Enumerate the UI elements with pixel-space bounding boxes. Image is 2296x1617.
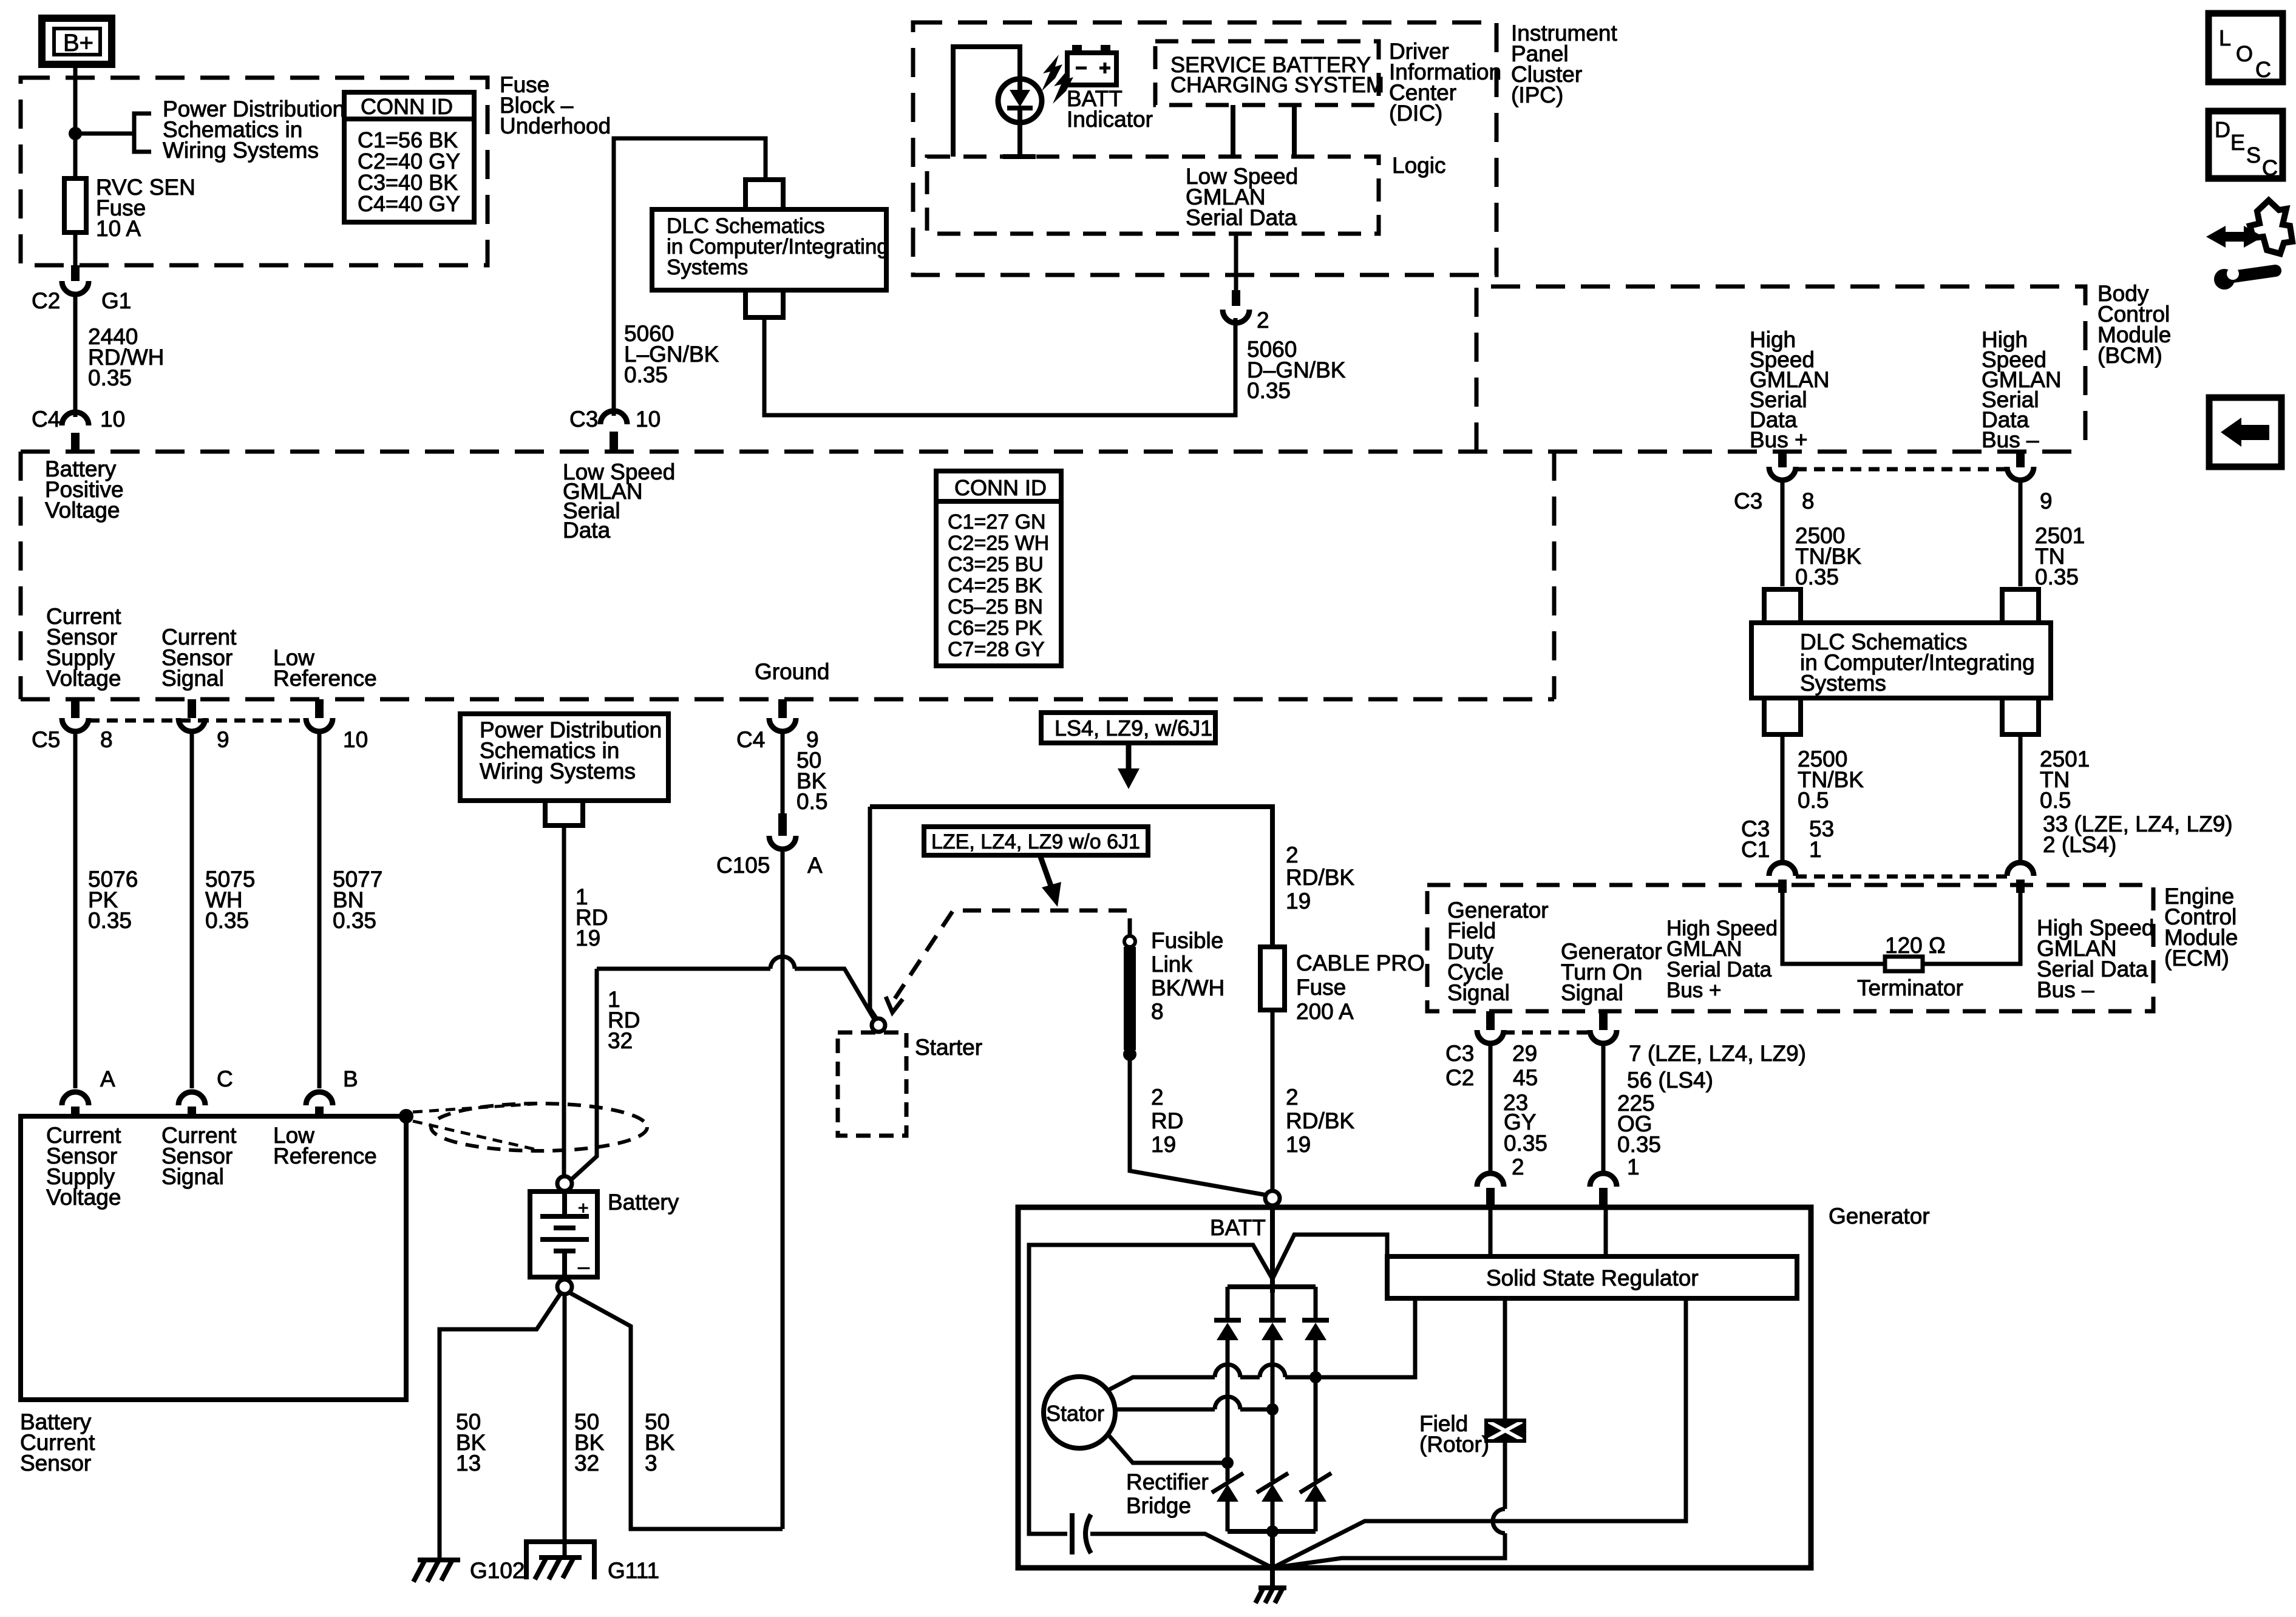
bracket DLC bottom <box>746 290 783 317</box>
car with wrench icon <box>2206 200 2292 290</box>
LED circle <box>998 79 1042 123</box>
wire rail to case apex <box>1270 1531 1275 1568</box>
svg-text:C4: C4 <box>736 727 765 752</box>
pin stub C105 <box>778 813 787 836</box>
svg-text:C2: C2 <box>32 288 60 313</box>
wire 2501 TN 0.5 <box>2019 734 2023 863</box>
wire fuse to C2 <box>73 232 78 265</box>
conn id table harness <box>936 471 1061 666</box>
svg-text:(DIC): (DIC) <box>1389 101 1442 126</box>
bracket DLC top <box>746 180 783 208</box>
wire regulator ground return <box>1272 1298 1686 1568</box>
svg-text:45: 45 <box>1513 1065 1538 1090</box>
svg-text:C3: C3 <box>569 407 598 432</box>
dashed ellipse battery cable bundle <box>431 1103 647 1151</box>
svg-text:LS4, LZ9, w/6J1: LS4, LZ9, w/6J1 <box>1055 716 1212 741</box>
LOC icon box <box>2209 13 2283 82</box>
logic dashed box <box>927 157 1379 234</box>
svg-text:C: C <box>217 1066 233 1091</box>
svg-text:Underhood: Underhood <box>500 114 611 138</box>
wire battery negative to G111 <box>563 1294 567 1558</box>
svg-text:8: 8 <box>100 727 113 752</box>
rectifier top rail <box>1228 1284 1316 1289</box>
wire 1 RD 32 starter feed <box>569 969 597 1181</box>
field rotor symbol <box>1486 1420 1524 1441</box>
junction node phase3 column1 <box>1221 1457 1234 1469</box>
IPC dashed box <box>913 22 1496 275</box>
battery cell plates <box>540 1192 589 1277</box>
LED foot bar <box>1003 154 1036 159</box>
rectifier column 1 upper diode <box>1214 1287 1241 1481</box>
pin stub below C3 <box>610 432 618 450</box>
long dashed boundary line fuse block to BCM <box>21 450 2085 454</box>
pin stub above connector 2 <box>1232 290 1240 306</box>
stator phase wire 1 with hops <box>1107 1298 1415 1391</box>
svg-text:C2=25 WH: C2=25 WH <box>948 532 1049 555</box>
pin stub C5 supply <box>71 699 80 718</box>
svg-text:10: 10 <box>100 407 125 432</box>
svg-text:L: L <box>2219 25 2231 50</box>
wire capacitor to case apex <box>1090 1534 1272 1568</box>
svg-text:C3: C3 <box>1734 489 1762 514</box>
DLC schematics box 1 <box>652 209 886 290</box>
node B+ battery positive terminal <box>42 18 112 64</box>
svg-text:Link: Link <box>1151 952 1192 977</box>
svg-text:7 (LZE, LZ4, LZ9): 7 (LZE, LZ4, LZ9) <box>1629 1041 1806 1066</box>
svg-text:0.35: 0.35 <box>333 908 376 933</box>
connector ECM bus minus <box>2007 863 2034 876</box>
svg-text:C: C <box>2255 57 2271 82</box>
svg-text:0.5: 0.5 <box>2040 788 2071 813</box>
svg-text:56 (LS4): 56 (LS4) <box>1627 1068 1713 1093</box>
svg-text:C5: C5 <box>32 727 60 752</box>
pin stub C2 <box>71 265 80 281</box>
svg-text:(BCM): (BCM) <box>2097 343 2162 368</box>
svg-text:10: 10 <box>343 727 368 752</box>
connector pin B <box>306 1092 333 1105</box>
pin stub ECM turn on <box>1599 1011 1608 1030</box>
svg-text:2: 2 <box>1512 1154 1524 1179</box>
open arrowhead on dashed routing <box>886 997 903 1012</box>
svg-text:19: 19 <box>1286 1132 1311 1157</box>
wire 225 OG 0.35 <box>1601 1043 1606 1172</box>
svg-text:Terminator: Terminator <box>1857 975 1963 1000</box>
svg-text:0.35: 0.35 <box>88 908 132 933</box>
fuse CABLE PRO 200A <box>1260 947 1285 1010</box>
svg-text:Stator: Stator <box>1046 1401 1104 1426</box>
svg-text:1: 1 <box>1809 837 1822 862</box>
svg-text:1: 1 <box>1627 1154 1640 1179</box>
conn id table fuse block <box>344 92 474 222</box>
svg-text:Ground: Ground <box>755 659 829 684</box>
wire battery negative to generator ground <box>569 1292 783 1529</box>
svg-text:0.5: 0.5 <box>796 789 827 814</box>
rectifier bottom rail <box>1228 1529 1316 1534</box>
svg-text:A: A <box>807 853 823 878</box>
bracket power distribution bottom <box>545 801 583 825</box>
wire DIC to logic left <box>1231 105 1235 157</box>
svg-text:0.35: 0.35 <box>88 365 132 390</box>
svg-text:Voltage: Voltage <box>46 666 121 691</box>
dashed alternate routing LZE <box>895 910 1130 998</box>
wire BATT indicator loop <box>953 47 1020 157</box>
LS4 callout box <box>1041 713 1215 743</box>
svg-text:32: 32 <box>574 1451 599 1476</box>
svg-text:Bus –: Bus – <box>2037 977 2094 1002</box>
connector C4 pin 9 ground <box>769 718 796 731</box>
svg-text:C105: C105 <box>716 853 770 878</box>
wire fuse to generator BATT <box>1271 1010 1275 1191</box>
wire 2440 RD/WH 0.35 <box>73 294 78 417</box>
svg-text:C2: C2 <box>1445 1065 1474 1090</box>
dotted connector tie line 8 to 9 <box>1796 467 2007 472</box>
LS4 callout arrow <box>1126 743 1132 772</box>
connector ECM bus plus <box>1769 863 1796 876</box>
svg-text:Rectifier: Rectifier <box>1126 1470 1209 1494</box>
wire logic box to connector 2 <box>1234 234 1238 290</box>
power distribution box <box>460 714 668 801</box>
capacitor curved plate <box>1085 1514 1091 1553</box>
svg-text:Generator: Generator <box>1829 1204 1930 1229</box>
wire 50 BK 0.5 <box>781 731 785 813</box>
ground G111 with bracket <box>526 1542 594 1579</box>
svg-text:Solid State Regulator: Solid State Regulator <box>1486 1266 1699 1290</box>
wire terminator to bus minus <box>1923 893 2020 964</box>
svg-text:B: B <box>343 1066 358 1091</box>
svg-text:Wiring Systems: Wiring Systems <box>480 759 636 784</box>
svg-text:Reference: Reference <box>273 666 377 691</box>
connector pin 10 low reference <box>306 718 333 731</box>
wire 5060 L-GN/BK riser <box>614 138 766 416</box>
wire regulator sense right <box>1272 1235 1387 1279</box>
back arrow icon box <box>2209 398 2281 467</box>
rectifier column 2 lower diode <box>1257 1473 1288 1531</box>
svg-text:0.35: 0.35 <box>2035 564 2079 589</box>
DIC dashed box <box>1155 41 1379 105</box>
dotted connector tie line ECM bus <box>1796 875 2007 879</box>
battery symbol box <box>530 1192 597 1277</box>
svg-text:CABLE PRO: CABLE PRO <box>1296 951 1425 975</box>
LZE callout arrow <box>1040 855 1051 887</box>
LED diode triangle <box>1010 90 1030 107</box>
svg-text:0.35: 0.35 <box>1504 1131 1547 1156</box>
svg-text:G102: G102 <box>470 1558 525 1583</box>
capacitor flat plate <box>1070 1513 1075 1554</box>
connector C3 C2 duty cycle <box>1477 1030 1504 1043</box>
wire 2 RD 19 <box>1130 1054 1267 1195</box>
svg-text:RD/BK: RD/BK <box>1286 865 1354 890</box>
pin stub low ref <box>315 699 324 718</box>
svg-text:0.35: 0.35 <box>1795 564 1839 589</box>
stator circle <box>1044 1377 1115 1448</box>
LZE callout box <box>924 827 1148 855</box>
wire LED cathode to logic <box>1017 108 1022 157</box>
LED diode bar <box>1007 106 1033 110</box>
svg-text:C4: C4 <box>32 407 60 432</box>
svg-text:CONN ID: CONN ID <box>361 94 453 119</box>
svg-text:C7=28 GY: C7=28 GY <box>948 638 1045 661</box>
svg-text:13: 13 <box>456 1451 481 1476</box>
svg-text:Serial Data: Serial Data <box>1186 205 1297 230</box>
svg-text:2: 2 <box>1257 308 1269 333</box>
svg-text:Voltage: Voltage <box>46 1185 121 1210</box>
svg-text:Signal: Signal <box>1561 980 1623 1005</box>
svg-text:–: – <box>578 1255 589 1278</box>
DLC schematics box 2 <box>1751 623 2051 698</box>
junction node on B+ feed <box>69 127 82 140</box>
wire 23 GY 0.35 <box>1489 1043 1493 1172</box>
stator phase wire 3 <box>1107 1434 1228 1463</box>
svg-text:Systems: Systems <box>1800 671 1886 696</box>
connector 2 IPC serial data <box>1223 310 1249 323</box>
svg-text:Battery: Battery <box>608 1190 679 1215</box>
battery current sensor box <box>21 1116 406 1400</box>
rectifier column 2 upper diode <box>1259 1287 1286 1481</box>
svg-text:2 (LS4): 2 (LS4) <box>2043 832 2116 857</box>
starter feed horizontal with hop over ground wire <box>597 957 874 1019</box>
svg-text:Signal: Signal <box>161 666 224 691</box>
svg-text:Signal: Signal <box>1447 980 1510 1005</box>
svg-text:Wiring Systems: Wiring Systems <box>163 138 319 163</box>
svg-text:19: 19 <box>576 926 600 951</box>
svg-text:29: 29 <box>1512 1041 1537 1066</box>
svg-text:+: + <box>578 1198 589 1218</box>
svg-text:0.35: 0.35 <box>1247 378 1291 403</box>
svg-text:Data: Data <box>563 518 611 543</box>
wire ground drop to battery junction <box>781 849 785 1529</box>
svg-text:19: 19 <box>1286 889 1311 914</box>
ECM dashed box <box>1427 885 2153 1011</box>
svg-text:10: 10 <box>636 407 661 432</box>
wire regulator to field <box>1503 1298 1507 1420</box>
svg-text:Reference: Reference <box>273 1144 377 1168</box>
svg-text:2: 2 <box>1286 842 1299 867</box>
svg-text:C3=25 BU: C3=25 BU <box>948 553 1044 576</box>
pin stub ECM duty cycle <box>1486 1011 1495 1030</box>
wire 2500 TN/BK 0.5 <box>1781 734 1785 863</box>
svg-text:0.35: 0.35 <box>624 362 668 387</box>
starter terminal circle <box>872 1019 885 1032</box>
middle harness dashed box bottom edge <box>21 697 1554 702</box>
BCM dashed box <box>1476 286 2085 452</box>
svg-text:0.35: 0.35 <box>205 908 249 933</box>
svg-text:CONN ID: CONN ID <box>954 475 1047 500</box>
dotted callout line upper <box>413 1103 542 1112</box>
svg-text:2: 2 <box>1151 1085 1164 1110</box>
wire to power distribution callout <box>75 132 133 136</box>
svg-text:E: E <box>2230 130 2245 155</box>
wire DIC to logic right <box>1292 105 1297 157</box>
svg-text:C5–25 BN: C5–25 BN <box>948 595 1043 619</box>
wire from B+ into fuse block <box>73 64 78 178</box>
bracket DLC2 bottom right <box>2002 698 2039 734</box>
connector C3 pin 10 low speed gmlan <box>600 411 627 424</box>
wire bus plus to terminator <box>1782 893 1885 964</box>
LS4 battery feed line <box>870 807 1272 947</box>
fuse RVC SEN 10A <box>64 178 86 232</box>
wire 5075 WH 0.35 <box>190 731 194 1088</box>
fuse block underhood dashed box <box>21 78 487 265</box>
svg-text:C3: C3 <box>1445 1041 1474 1066</box>
svg-text:2: 2 <box>1286 1085 1299 1110</box>
connector pin 9 <box>2007 467 2034 480</box>
junction node bottom rail <box>1266 1525 1279 1537</box>
DESC icon box <box>2209 111 2283 180</box>
wire battery negative to G102 <box>440 1293 561 1559</box>
junction node sensor corner <box>399 1109 413 1124</box>
svg-text:C4=40 GY: C4=40 GY <box>358 191 460 216</box>
connector C105 pin A <box>769 836 796 849</box>
wire negative loop left <box>1029 1245 1272 1534</box>
dotted connector tie line C5 row <box>89 719 306 723</box>
wire turn on into regulator <box>1604 1207 1608 1256</box>
wire 2500 TN/BK 0.35 <box>1781 480 1785 586</box>
svg-text:120 Ω: 120 Ω <box>1885 933 1946 958</box>
connector generator terminal 2 <box>1477 1173 1504 1187</box>
svg-text:10 A: 10 A <box>96 216 141 241</box>
svg-text:D: D <box>2215 117 2230 142</box>
junction node phase1 column3 <box>1309 1371 1322 1383</box>
stator phase wire 2 with hop <box>1115 1397 1272 1409</box>
connector generator terminal 1 <box>1590 1173 1617 1187</box>
pin stub below C4 <box>71 433 80 451</box>
svg-text:CHARGING SYSTEM: CHARGING SYSTEM <box>1170 72 1384 97</box>
battery indicator icon <box>1067 45 1116 85</box>
generator box <box>1018 1207 1811 1568</box>
pin stub BCM bus plus <box>1778 452 1787 467</box>
LED flash arrows <box>1042 55 1073 104</box>
generator internal ground <box>1255 1568 1286 1603</box>
connector C5 pin 8 <box>62 718 89 731</box>
wire BATT into rectifier <box>1270 1205 1275 1293</box>
dotted connector tie line ECM bottom <box>1504 1031 1590 1035</box>
starter dashed box <box>838 1032 906 1136</box>
junction node fusible link <box>1123 1048 1136 1061</box>
svg-text:C4=25 BK: C4=25 BK <box>948 574 1042 597</box>
svg-text:32: 32 <box>608 1028 633 1053</box>
svg-text:Indicator: Indicator <box>1067 107 1153 132</box>
svg-text:8: 8 <box>1151 999 1164 1024</box>
wire duty cycle into regulator <box>1489 1207 1493 1256</box>
svg-text:Fuse: Fuse <box>1296 975 1346 1000</box>
svg-text:8: 8 <box>1802 489 1815 514</box>
wire 5076 PK 0.35 <box>73 731 78 1088</box>
svg-text:0.35: 0.35 <box>1617 1132 1661 1157</box>
svg-text:G1: G1 <box>101 288 131 313</box>
wire 1 RD 19 battery feed <box>562 825 566 1178</box>
bracket DLC2 bottom left <box>1764 698 1801 734</box>
dotted callout line lower <box>413 1121 542 1151</box>
svg-text:19: 19 <box>1151 1132 1176 1157</box>
pin stub ground harness <box>778 699 787 718</box>
svg-text:Logic: Logic <box>1392 153 1445 178</box>
junction node phase2 column2 <box>1266 1403 1279 1415</box>
svg-text:9: 9 <box>2040 489 2053 514</box>
svg-text:(Rotor): (Rotor) <box>1419 1432 1489 1457</box>
bracket DLC2 top left <box>1764 589 1801 623</box>
svg-text:Starter: Starter <box>915 1035 982 1060</box>
generator BATT terminal circle <box>1265 1191 1280 1205</box>
middle harness dashed box left edge <box>19 452 23 699</box>
connector C4 pin 10 <box>62 412 89 425</box>
svg-text:BATT: BATT <box>1210 1215 1266 1240</box>
svg-text:(IPC): (IPC) <box>1511 83 1563 107</box>
svg-text:Bus +: Bus + <box>1750 427 1808 452</box>
svg-text:200 A: 200 A <box>1296 999 1354 1024</box>
rectifier column 3 lower diode <box>1300 1473 1331 1531</box>
connector turn on signal <box>1590 1030 1617 1043</box>
svg-text:Bridge: Bridge <box>1126 1493 1191 1518</box>
svg-text:Voltage: Voltage <box>45 498 120 523</box>
pin stub BCM bus minus <box>2016 452 2025 467</box>
svg-text:0.5: 0.5 <box>1798 788 1829 813</box>
connector pin A <box>62 1092 89 1105</box>
svg-text:Signal: Signal <box>161 1164 224 1189</box>
rectifier column 3 upper diode <box>1302 1287 1329 1481</box>
wire field return with hop <box>1272 1441 1505 1568</box>
fusible link element <box>1124 947 1136 1050</box>
svg-text:C1=27 GN: C1=27 GN <box>948 510 1046 534</box>
svg-text:3: 3 <box>645 1451 657 1476</box>
svg-text:RD: RD <box>1151 1108 1183 1133</box>
svg-text:S: S <box>2246 143 2261 168</box>
battery positive terminal circle <box>557 1176 572 1191</box>
svg-text:LZE, LZ4, LZ9 w/o 6J1: LZE, LZ4, LZ9 w/o 6J1 <box>931 830 1140 853</box>
wire 2501 TN 0.35 <box>2019 480 2023 586</box>
connector C2 pin G1 <box>62 281 89 294</box>
svg-text:RD/BK: RD/BK <box>1286 1108 1354 1133</box>
svg-text:Systems: Systems <box>667 256 748 279</box>
svg-text:(ECM): (ECM) <box>2164 946 2229 971</box>
bracket DLC2 top right <box>2002 589 2039 623</box>
solid state regulator box <box>1387 1256 1797 1298</box>
svg-text:C6=25 PK: C6=25 PK <box>948 617 1042 640</box>
ground G102 <box>413 1560 460 1582</box>
svg-text:B+: B+ <box>63 30 93 56</box>
middle harness dashed box right edge <box>1552 452 1557 699</box>
svg-text:Bus –: Bus – <box>1982 427 2039 452</box>
pin stub signal <box>188 699 196 718</box>
rectifier column 1 lower diode <box>1212 1473 1243 1531</box>
connector pin C <box>178 1092 205 1105</box>
svg-text:C: C <box>2262 155 2278 180</box>
wire LS4 feed drop to starter <box>870 807 876 1018</box>
svg-text:C1: C1 <box>1741 837 1770 862</box>
svg-text:Sensor: Sensor <box>20 1451 91 1476</box>
svg-text:Bus +: Bus + <box>1666 978 1721 1002</box>
fusible link terminal circle <box>1124 936 1135 947</box>
svg-text:G111: G111 <box>608 1558 659 1583</box>
svg-text:O: O <box>2236 41 2253 66</box>
svg-text:9: 9 <box>217 727 229 752</box>
svg-text:Fusible: Fusible <box>1151 928 1223 953</box>
battery negative terminal circle <box>557 1280 572 1294</box>
svg-text:A: A <box>100 1066 115 1091</box>
svg-text:BK/WH: BK/WH <box>1151 975 1224 1000</box>
wire DLC to serial data run <box>764 317 1235 415</box>
wire 5077 BN 0.35 <box>318 731 322 1088</box>
bracket power distribution reference <box>134 114 151 152</box>
connector C3 pin 8 <box>1769 467 1796 480</box>
connector pin 9 sensor signal <box>178 718 205 731</box>
